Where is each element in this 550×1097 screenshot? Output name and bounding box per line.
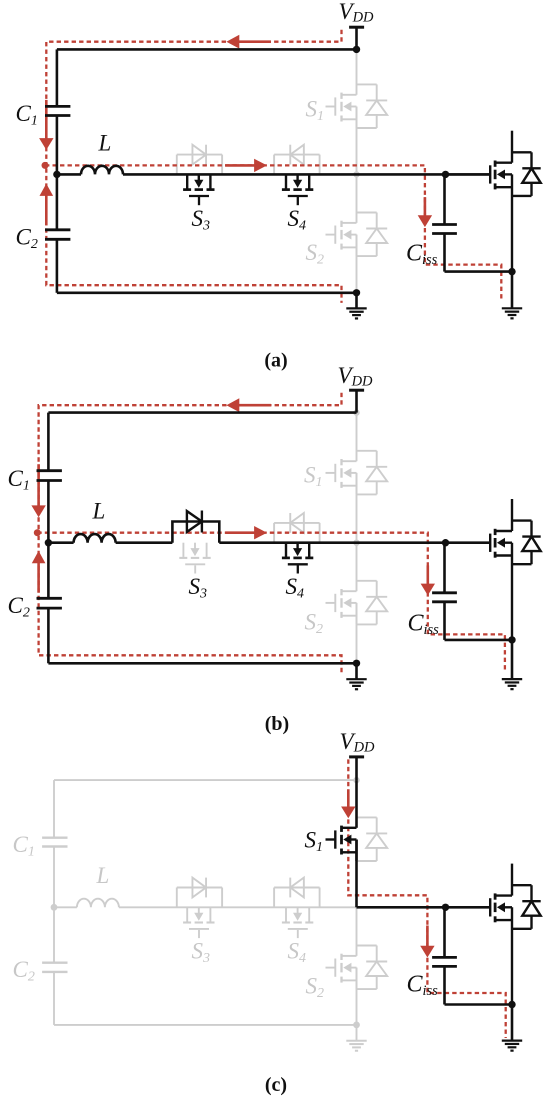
wire: S1 source down and right to gate node [357,840,446,908]
wire + ground (power ground) [502,640,522,689]
node: rail crosses gate wire (gray) [353,171,359,177]
svg-text:C1: C1 [13,832,35,860]
wire + ground (power ground) [502,272,522,319]
wire: gate bus through S3 and S4 [123,173,446,176]
wire: Ciss to source node [445,234,513,272]
label S4 (gray) [288,939,307,967]
diode: conduction diode over S3 (black) [172,511,219,543]
rail net: VDD-S1-S2-gnd vertical rail (inactive, gray) [356,413,358,664]
wire: gate node to power MOSFET gate [446,541,491,544]
wire: S3 diode to S4 and gate node [219,541,445,544]
transistor S4 (on) [282,543,313,574]
svg-text:S2: S2 [305,610,324,638]
wire: Ciss to source node [445,602,513,640]
wire: gate node to power MOSFET gate [446,906,491,909]
label VDD [338,363,374,390]
red arrow: right along gate bus [225,526,267,539]
node: gate node [442,539,449,546]
ground (driver return) [346,663,366,689]
diode: anti-parallel diode over S4 (gray) [274,513,320,543]
capacitor C1 [45,49,70,115]
node: rail/top corner gray junction [353,46,359,52]
svg-text:S3: S3 [189,574,208,602]
wire: gray top rail from C1 to VDD node [54,779,357,781]
label Ciss [407,972,439,1000]
transistor: power MOSFET (device under drive) [446,131,541,272]
svg-text:S1: S1 [306,97,325,125]
label S3 (gray) [192,939,211,967]
label S1 [305,828,324,856]
red arrow: right along gate bus [225,159,267,172]
wire: gray gate bus through S3/S4 [119,906,357,908]
wire: C2 to bottom rail [57,239,357,292]
label C2 [8,593,30,621]
svg-text:C2: C2 [13,957,35,985]
node: C1/C2 midpoint [45,539,52,546]
inductor L [48,534,115,543]
wire: VDD down to S1 [355,780,358,828]
red node dot at C1/C2 midpoint [34,529,41,536]
red current loop: VDD to C1 (dashed) [39,393,342,533]
wire: gray bottom loop [54,972,357,1025]
label L (gray) [96,863,110,888]
red current loop: node through switches to Ciss [37,533,505,673]
svg-text:C1: C1 [8,466,30,494]
svg-text:Ciss: Ciss [407,972,439,1000]
capacitor C2 [37,598,62,608]
transistor S1 (on, black) with gray body diode [326,817,388,861]
diode: anti-parallel diode over S3 (gray) [177,145,222,175]
transistor S3 (gray) [183,907,214,938]
caption (a) [264,350,287,372]
label S4 [286,574,305,602]
svg-text:VDD: VDD [340,729,376,756]
svg-text:S2: S2 [306,974,325,1002]
svg-text:L: L [92,499,106,524]
svg-text:S3: S3 [192,206,211,234]
svg-text:S3: S3 [192,939,211,967]
svg-text:(b): (b) [265,713,289,735]
svg-text:Ciss: Ciss [408,611,440,639]
rail: gray rail below gate bus to S2 and ground [356,907,358,1025]
red arrow: up through C2 [40,184,54,226]
capacitor C2 (gray) [42,963,67,972]
red arrow: down from VDD through S1 [341,789,355,818]
node: gate node [442,904,449,911]
red arrow: current direction on top rail (left) [226,35,271,49]
svg-text:S4: S4 [288,206,307,234]
red arrow: down into Ciss branch [420,926,434,958]
power supply VDD terminal bar [349,757,364,780]
label C1 (gray) [13,832,35,860]
svg-text:Ciss: Ciss [406,240,438,268]
wire: top rail from C1 to VDD [48,411,356,414]
wire + ground (power ground) [502,1005,522,1051]
svg-text:S1: S1 [305,828,324,856]
transistor S1 (high-side switch, off, gray) with body diode [326,451,388,495]
transistor S4 (on) [282,174,313,205]
wire: C2 to bottom rail [48,608,356,663]
label S1 [306,97,325,125]
transistor S3 (off, gray, bypassed by diode) [179,543,210,574]
red arrow: down through C1 [39,100,53,150]
red arrow: up through C2 [32,551,46,593]
rail net: VDD-S1-S2-gnd vertical rail (inactive, gray) [356,49,358,292]
node: C1/C2 midpoint [53,171,60,178]
svg-text:L: L [96,863,110,888]
red current loop: VDD to C1 (dashed) [46,30,341,166]
inductor L [57,166,123,175]
label VDD [340,729,376,756]
red arrow: down into Ciss branch [421,565,435,595]
label C2 (gray) [13,957,35,985]
label S2 [305,610,324,638]
svg-text:C1: C1 [16,101,38,129]
wire: gate node to power MOSFET gate [446,173,491,176]
wire: C1 to node [47,481,50,599]
capacitor C2 [45,230,70,240]
node: VDD junction [353,46,360,53]
svg-text:S2: S2 [306,240,325,268]
node: power MOSFET source node [508,1001,515,1008]
ground (gray, driver return) [346,1025,366,1051]
node: gate node [442,171,449,178]
capacitor Ciss (gate input capacitance) [432,174,457,233]
svg-text:S4: S4 [286,574,305,602]
label S2 [306,240,325,268]
diode over S3 (gray) [177,878,222,908]
red current path: VDD through S1 to Ciss (dashed) [348,759,505,1038]
node: bottom rail / ground junction [353,660,360,667]
node: power MOSFET source node [508,636,515,643]
label C2 [16,225,38,253]
red arrow: current direction on top rail (left) [226,398,271,412]
label L [98,131,112,156]
label S1 [304,463,323,491]
label S3 [192,206,211,234]
svg-text:VDD: VDD [339,0,375,26]
red current loop: node through switches to Ciss [45,165,501,301]
transistor: power MOSFET (device under drive) [446,864,541,1005]
node: gray bottom junction [353,1022,360,1029]
node: gray mid-point of C1/C2 [51,904,58,911]
transistor S2 (low-side switch, off, gray) with body diode [326,213,388,257]
wire: gray left mid segment [53,847,55,963]
label Ciss [406,240,438,268]
transistor S2 (low-side switch, off, gray) with body diode [326,581,388,625]
label Ciss [408,611,440,639]
capacitor Ciss (gate input capacitance) [432,907,457,966]
power supply VDD terminal bar [349,390,364,412]
transistor S3 (on) [183,174,214,205]
caption (c) [265,1074,287,1096]
label S4 [288,206,307,234]
svg-text:C2: C2 [16,225,38,253]
capacitor Ciss (gate input capacitance) [432,543,457,602]
transistor S2 (gray) with body diode [326,946,388,990]
red current loop: C2 return path [46,168,341,303]
red node dot at C1/C2 midpoint [42,162,49,169]
transistor S4 (gray) [282,907,313,938]
node: gray junction at VDD feed [353,777,359,783]
label C1 [8,466,30,494]
node: bottom rail / ground junction [353,289,360,296]
svg-text:L: L [98,131,112,156]
red arrow: down through C1 [31,464,45,517]
svg-text:(c): (c) [265,1074,287,1096]
power supply VDD terminal bar [349,27,364,49]
svg-text:VDD: VDD [338,363,374,390]
label S3 [189,574,208,602]
transistor: power MOSFET (device under drive) [446,499,541,640]
capacitor C1 [37,413,62,481]
label L [92,499,106,524]
caption (b) [265,713,289,735]
red current loop: C2 return path [39,536,342,673]
ground (driver return) [346,293,366,319]
wire: inductor to S3 diode [116,541,173,544]
red arrow: down into Ciss branch [418,197,432,227]
label C1 [16,101,38,129]
svg-text:S4: S4 [288,939,307,967]
capacitor C1 (gray) [42,780,67,846]
diode over S4 (gray) [274,878,320,908]
transistor S1 (high-side switch, off, gray) with body diode [326,84,388,128]
inductor L (gray) [54,899,119,908]
wire: top rail from C1 to VDD [57,48,357,51]
wire: C1 to node [56,116,59,230]
diode: anti-parallel diode over S4 (gray) [274,145,320,175]
svg-text:(a): (a) [264,350,287,372]
svg-text:S1: S1 [304,463,323,491]
wire: Ciss to source node [445,966,513,1004]
label S2 (gray) [306,974,325,1002]
label VDD [339,0,375,26]
node: rail/top corner gray junction [353,409,359,415]
node: rail crosses gate wire (gray) [353,540,359,546]
svg-text:C2: C2 [8,593,30,621]
node: power MOSFET source node [508,268,515,275]
